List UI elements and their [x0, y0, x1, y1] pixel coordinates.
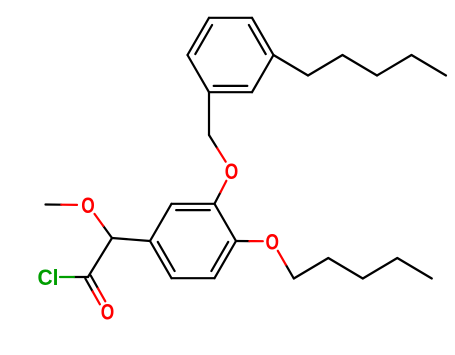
- svg-text:O: O: [101, 300, 115, 325]
- svg-text:O: O: [225, 159, 239, 184]
- svg-text:O: O: [266, 229, 280, 254]
- svg-text:O: O: [81, 193, 95, 218]
- svg-text:Cl: Cl: [38, 265, 59, 290]
